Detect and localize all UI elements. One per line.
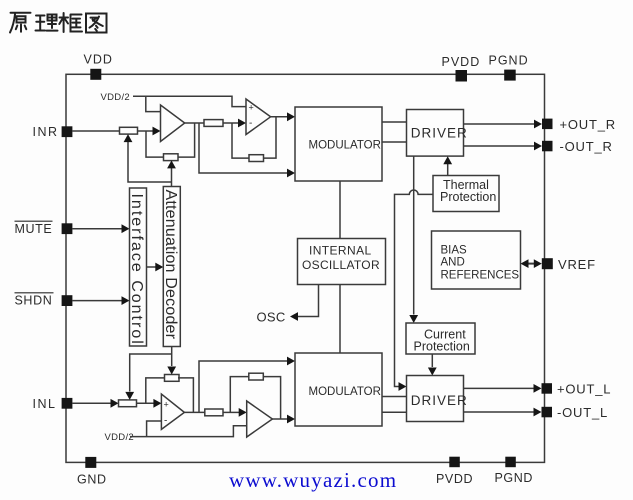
pin -OUT_R <box>542 139 613 154</box>
block driver (bottom) <box>407 376 468 422</box>
resistor R8 (feedback, U4) <box>249 373 263 380</box>
pin VREF <box>542 257 596 272</box>
svg-text:+OUT_R: +OUT_R <box>560 117 616 132</box>
wires modulator to driver (top) <box>382 122 407 142</box>
wire INL to R5 (arrow) <box>72 399 118 408</box>
wire U4 output to modulator L <box>272 415 295 424</box>
block interface control <box>128 188 146 346</box>
svg-text:MODULATOR: MODULATOR <box>309 139 381 151</box>
svg-text:Protection: Protection <box>440 190 496 204</box>
wire R2 to U1 output <box>178 123 195 157</box>
svg-text:INL: INL <box>33 397 57 411</box>
svg-text:INTERNAL: INTERNAL <box>309 244 372 258</box>
resistor R6 (feedback, bottom) <box>165 375 180 382</box>
resistor R2 (feedback, top) <box>164 154 179 161</box>
block internal oscillator <box>298 239 386 285</box>
wire VDD/2 to op-amps (bottom) <box>130 421 247 437</box>
svg-text:Attenuation Decoder: Attenuation Decoder <box>162 190 179 340</box>
svg-text:VDD/2: VDD/2 <box>105 432 134 443</box>
pin VDD <box>84 53 113 80</box>
svg-text:-OUT_L: -OUT_L <box>557 405 608 420</box>
chip boundary frame <box>66 74 545 462</box>
svg-text:+: + <box>164 399 169 409</box>
title 原理框图 <box>10 13 107 33</box>
wire driver to +OUT_L <box>464 384 542 393</box>
op-amp U2 <box>246 99 271 135</box>
svg-text:+OUT_L: +OUT_L <box>557 382 611 397</box>
pin +OUT_L <box>542 382 612 397</box>
wire R7 to op-amp U4 <box>223 408 247 417</box>
pin -OUT_L <box>542 405 609 420</box>
pin INR <box>33 125 73 139</box>
pin PGND (bottom) <box>495 457 534 485</box>
svg-text:DRIVER: DRIVER <box>411 393 468 408</box>
wire U3 output branch to modulator L <box>199 357 295 413</box>
svg-text:INR: INR <box>33 125 59 139</box>
wire R1 to op-amp U1 <box>138 127 161 136</box>
wire modulator top to oscillator <box>339 181 341 239</box>
wire R8 to U4 output <box>263 377 280 419</box>
wire driver to +OUT_R <box>464 120 543 129</box>
wire attenuation control branch to R1 (arrow up) <box>124 134 172 182</box>
svg-text:www.wuyazi.com: www.wuyazi.com <box>229 468 397 492</box>
resistor R5 (INL input) <box>119 400 137 407</box>
resistor R7 (series, bottom) <box>205 409 223 416</box>
wire attenuation control branch to R5 (arrow down) <box>125 354 171 400</box>
svg-text:BIAS: BIAS <box>441 244 468 256</box>
block bias and references <box>432 231 521 289</box>
pin +OUT_R <box>542 117 616 132</box>
svg-text:REFERENCES: REFERENCES <box>441 269 520 281</box>
wire interface control to attenuation decoder <box>147 263 164 272</box>
op-amp U3 <box>161 394 184 429</box>
wire R5 to op-amp U3 <box>137 399 162 408</box>
resistor R3 (series, top) <box>204 120 223 127</box>
svg-text:Protection: Protection <box>414 340 470 354</box>
resistor R1 (INR input) <box>72 127 137 134</box>
wire bias references to VREF (double arrow) <box>521 259 542 268</box>
svg-text:DRIVER: DRIVER <box>411 126 468 141</box>
wire driver to -OUT_R <box>464 142 543 151</box>
block attenuation decoder <box>162 187 180 347</box>
wire U2 feedback lower <box>232 123 249 158</box>
block current protection <box>406 323 475 354</box>
wire driver R to current protection (with hop) <box>409 156 418 323</box>
block modulator (bottom) <box>295 353 382 426</box>
svg-text:MODULATOR: MODULATOR <box>309 386 381 398</box>
svg-text:AND: AND <box>441 257 465 269</box>
svg-text:PGND: PGND <box>489 54 529 68</box>
svg-text:OSCILLATOR: OSCILLATOR <box>302 258 380 272</box>
op-amp U4 <box>247 401 273 437</box>
svg-text:Interface Control: Interface Control <box>128 194 145 346</box>
wire thermal protection to driver (arrow up) <box>443 156 452 175</box>
svg-text:VDD/2: VDD/2 <box>101 92 130 103</box>
pin INL <box>33 397 73 411</box>
wire thermal protection to driver L <box>395 190 434 391</box>
svg-text:-OUT_R: -OUT_R <box>560 139 613 154</box>
pin MUTE <box>15 221 73 236</box>
svg-text:MUTE: MUTE <box>15 222 53 236</box>
svg-text:PVDD: PVDD <box>436 472 473 486</box>
wires modulator to driver (bottom) <box>382 397 407 413</box>
wire oscillator to OSC output <box>257 285 319 325</box>
wire attenuation control to R6 (arrow down) <box>167 347 176 375</box>
wire R4 to U2 output <box>264 117 277 158</box>
svg-text:PVDD: PVDD <box>442 55 481 69</box>
svg-text:+: + <box>249 103 254 113</box>
pin GND (bottom) <box>77 457 107 487</box>
wire MUTE to interface control <box>72 224 129 233</box>
svg-text:PGND: PGND <box>495 471 534 485</box>
block thermal protection <box>433 176 499 212</box>
op-amp U1 <box>161 105 185 142</box>
pin PGND (top) <box>489 54 529 81</box>
pin PVDD (top) <box>442 55 481 82</box>
svg-text:VREF: VREF <box>558 257 596 272</box>
svg-text:OSC: OSC <box>257 310 286 325</box>
wire node to feedback resistor R2 <box>146 131 164 157</box>
wire R6 to U3 output <box>178 378 193 413</box>
block modulator (top) <box>295 107 382 181</box>
wire U3 output to R7 <box>184 411 204 413</box>
svg-text:SHDN: SHDN <box>15 294 53 308</box>
wire current protection to driver L (arrow down) <box>428 354 437 376</box>
wire SHDN to interface control <box>72 296 129 305</box>
wire R3 to op-amp U2 inverting input <box>223 119 246 128</box>
wire U2 output to modulator <box>271 112 295 121</box>
svg-text:VDD: VDD <box>84 53 113 67</box>
wire U1 output branch to modulator <box>199 123 295 177</box>
pin PVDD (bottom) <box>436 457 473 486</box>
wire U4 feedback upper <box>230 377 249 413</box>
resistor R4 (feedback, U2) <box>249 155 264 162</box>
wire driver to -OUT_L <box>464 408 542 417</box>
wire U1 output to R3 <box>185 122 204 124</box>
block driver (top) <box>407 110 468 157</box>
wire node to feedback resistor R6 <box>146 378 165 403</box>
pin SHDN <box>15 293 73 308</box>
svg-text:-: - <box>164 416 167 427</box>
svg-text:-: - <box>249 118 252 129</box>
wire oscillator to modulator bottom <box>339 285 341 354</box>
svg-text:GND: GND <box>77 473 107 487</box>
wire VDD/2 to op-amps (top) <box>133 96 246 111</box>
wire attenuation control to R2 (arrow up) <box>167 160 176 186</box>
